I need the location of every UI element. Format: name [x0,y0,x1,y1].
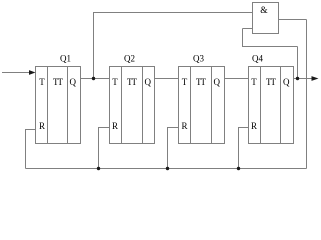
svg-text:T: T [112,77,118,87]
wire Q4 R pin [239,128,249,169]
svg-text:T: T [182,77,188,87]
svg-text:TT: TT [127,77,137,87]
wire horizontal toward AND input 2 [243,46,298,48]
svg-text:Q: Q [283,77,290,87]
wire Q1 R pin [26,130,36,169]
svg-text:Q: Q [145,77,152,87]
wire top feedback to AND input 1 [93,12,253,14]
svg-text:Q3: Q3 [193,54,204,64]
svg-text:T: T [251,77,257,87]
svg-text:Q: Q [214,77,221,87]
wire Q1 output to Q2 T input [81,78,110,80]
svg-text:Q4: Q4 [252,54,263,64]
wire Q3 R pin [168,128,179,169]
svg-text:Q: Q [70,77,77,87]
svg-text:&: & [260,6,268,16]
flip-flop Q3 [179,54,225,144]
wire AND output vertical down to reset rail [306,20,308,169]
svg-text:R: R [181,121,187,131]
wire Q2 R pin [99,128,110,169]
flip-flop Q2 [110,54,155,144]
junction dot Q4 reset [237,167,240,170]
wire node A vertical riser to top [93,13,95,79]
flip-flop Q1 [36,54,81,144]
svg-text:R: R [39,121,45,131]
svg-text:T: T [39,77,45,87]
svg-text:R: R [251,121,257,131]
wire into AND input 2 [243,28,253,30]
input arrowhead [29,70,36,75]
svg-text:TT: TT [266,77,276,87]
wire bottom reset rail [26,168,307,170]
junction dot Q2 reset [97,167,100,170]
flip-flop Q4 [249,54,294,144]
svg-text:Q1: Q1 [60,54,71,64]
output arrowhead [312,76,319,81]
node A junction dot [92,77,95,80]
wire Q2 output to Q3 T input [155,78,179,80]
wire node B riser up from output [297,47,299,79]
svg-text:TT: TT [53,77,63,87]
node B junction dot [296,77,299,80]
svg-text:TT: TT [196,77,206,87]
wire Q3 output to Q4 T input [225,78,249,80]
svg-text:Q2: Q2 [124,54,135,64]
junction dot Q3 reset [166,167,169,170]
svg-text:R: R [112,121,118,131]
wire input line [2,72,30,74]
wire AND output horizontal [279,19,307,21]
AND gate U1 [253,3,279,34]
wire Q4 output line [294,78,313,80]
wire vertical up to AND input 2 level [242,29,244,48]
